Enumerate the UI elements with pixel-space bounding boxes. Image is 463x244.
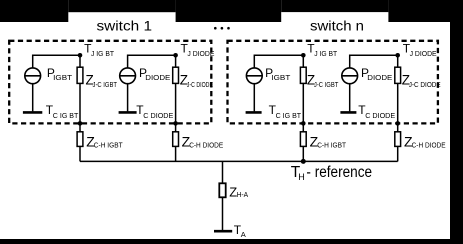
label Z_C-H DIODE (module 2) <box>404 134 446 150</box>
label T_J DIODE (module 2) <box>403 41 437 58</box>
node T_C DIODE (module 2) on module border <box>395 121 400 126</box>
wire: source P_DIODE to node T_J DIODE <box>128 55 176 68</box>
svg-text:C DIODE: C DIODE <box>365 111 395 120</box>
wire: source P_DIODE to node T_J DIODE (module 2) <box>350 55 398 68</box>
power source P_IGBT IGBT <box>25 68 41 84</box>
svg-text:J IG BT: J IG BT <box>91 49 114 58</box>
svg-text:C-H DIODE: C-H DIODE <box>189 141 223 150</box>
label P_IGBT IGBT (module 2) <box>265 66 291 82</box>
label Z_J-C DIODE <box>180 73 213 90</box>
power source P_IGBT IGBT (module 2) <box>246 68 262 84</box>
resistor Z_J-C IGBT (module 2) <box>300 55 306 123</box>
label Z_J-C IGBT (module 2) <box>307 73 339 90</box>
svg-text:J-C DIODE: J-C DIODE <box>187 80 213 89</box>
svg-text:C DIODE: C DIODE <box>143 111 173 120</box>
label T_J IGBT <box>84 41 114 58</box>
wire: bus to resistor Z_H-A <box>222 161 224 183</box>
wire: resistor Z_H-A to ambient plate <box>222 197 224 230</box>
wire: source P_DIODE to case plate DIODE <box>127 84 129 112</box>
svg-text:C IG BT: C IG BT <box>276 111 302 120</box>
resistor Z_C-H IGBT <box>77 123 83 161</box>
label Z_J-C IGBT <box>86 73 118 90</box>
svg-text:J-C IGBT: J-C IGBT <box>93 80 118 89</box>
case plate T_C DIODE <box>119 111 137 114</box>
black top band left segment <box>0 0 68 22</box>
svg-text:J DIODE: J DIODE <box>410 49 437 58</box>
dashed module box switch 1 <box>9 41 211 124</box>
heatsink bus wire <box>80 160 398 162</box>
label Z_C-H IGBT <box>86 134 123 150</box>
svg-text:C-H DIODE: C-H DIODE <box>412 141 446 150</box>
wire: source P_IGBT to node T_J IGBT (module 2) <box>254 55 303 68</box>
svg-text:H: H <box>298 172 305 182</box>
label Z_J-C DIODE (module 2) <box>402 73 441 90</box>
svg-text:A: A <box>241 230 246 239</box>
label T_J IGBT (module 2) <box>307 41 337 58</box>
resistor Z_C-H DIODE (module 2) <box>395 123 401 161</box>
node T_C IGBT (module 2) on module border <box>301 121 306 126</box>
node T_J DIODE (module 2) <box>395 53 400 58</box>
svg-text:IGBT: IGBT <box>53 73 72 82</box>
black top band above switch n label <box>281 0 388 12</box>
wire: source P_IGBT to node T_J IGBT <box>33 55 80 68</box>
black top band middle segment <box>176 0 282 22</box>
black right bar <box>450 0 463 244</box>
svg-text:DIODE: DIODE <box>367 73 392 82</box>
svg-text:switch n: switch n <box>310 19 364 34</box>
resistor Z_H-A <box>219 183 225 197</box>
power source P_DIODE DIODE (module 2) <box>342 68 358 84</box>
label Z_C-H DIODE <box>182 134 224 150</box>
label T_J DIODE <box>181 41 215 58</box>
svg-text:DIODE: DIODE <box>145 73 170 82</box>
black bottom bar <box>0 239 463 244</box>
power source P_DIODE DIODE <box>120 68 136 84</box>
label P_DIODE DIODE <box>139 66 170 82</box>
svg-text:C IG BT: C IG BT <box>53 111 79 120</box>
resistor Z_C-H DIODE <box>173 123 179 161</box>
node T_H on bus <box>301 159 306 164</box>
wire: source P_IGBT to case plate IGBT <box>32 84 34 112</box>
svg-text:H-A: H-A <box>237 190 249 199</box>
node T_J IGBT <box>78 53 83 58</box>
svg-text:IGBT: IGBT <box>271 73 290 82</box>
wire: source P_DIODE to case plate DIODE (module 2) <box>349 84 351 112</box>
ellipsis dots between switches <box>214 27 230 30</box>
svg-text:J DIODE: J DIODE <box>187 49 214 58</box>
svg-text:J-C IGBT: J-C IGBT <box>314 80 339 89</box>
label T_C DIODE (module 2) <box>358 103 395 120</box>
label T_C IGBT (module 2) <box>269 103 302 120</box>
case plate T_C IGBT <box>23 111 42 114</box>
black top band right segment <box>388 0 451 22</box>
node T_J DIODE <box>173 53 178 58</box>
svg-text:- reference: - reference <box>306 164 372 181</box>
label T_C DIODE <box>136 103 173 120</box>
svg-text:J IG BT: J IG BT <box>314 49 337 58</box>
node T_J IGBT (module 2) <box>301 53 306 58</box>
label T_A <box>234 223 246 239</box>
svg-text:C-H IGBT: C-H IGBT <box>94 141 123 150</box>
wire: source P_IGBT to case plate IGBT (module 2) <box>253 84 255 112</box>
node T_C DIODE on module border <box>173 121 178 126</box>
resistor Z_J-C IGBT <box>77 55 83 123</box>
label T_H - reference <box>291 164 372 182</box>
svg-text:C-H IGBT: C-H IGBT <box>317 141 346 150</box>
black top band above switch 1 label <box>68 0 175 12</box>
label T_C IGBT <box>46 103 79 120</box>
ambient plate T_A <box>214 230 232 233</box>
node T_C IGBT on module border <box>78 121 83 126</box>
label P_DIODE DIODE (module 2) <box>361 66 392 82</box>
svg-text:J-C DIODE: J-C DIODE <box>409 80 441 89</box>
case plate T_C DIODE (module 2) <box>340 111 356 114</box>
resistor Z_J-C DIODE (module 2) <box>395 55 401 123</box>
label P_IGBT IGBT <box>47 66 73 82</box>
dashed module box switch n <box>228 41 438 124</box>
case plate T_C IGBT (module 2) <box>246 111 262 114</box>
resistor Z_C-H IGBT (module 2) <box>300 123 306 161</box>
resistor Z_J-C DIODE <box>173 55 179 123</box>
label Z_H-A <box>229 184 248 199</box>
label Z_C-H IGBT (module 2) <box>310 134 347 150</box>
svg-text:switch 1: switch 1 <box>97 19 153 34</box>
